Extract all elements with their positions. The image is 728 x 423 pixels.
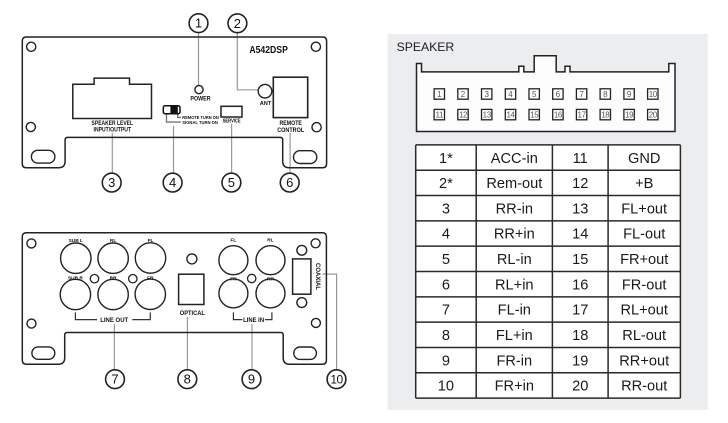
svg-text:18: 18 bbox=[601, 111, 610, 120]
svg-text:POWER: POWER bbox=[190, 96, 211, 103]
svg-text:FL-in: FL-in bbox=[498, 303, 531, 319]
connector pin 4 bbox=[505, 89, 515, 99]
svg-text:RR-in: RR-in bbox=[496, 201, 533, 217]
svg-text:9: 9 bbox=[442, 353, 450, 369]
callout 3 bbox=[102, 173, 121, 192]
optical port rectangle bbox=[179, 274, 204, 304]
callout 1 bbox=[189, 14, 208, 33]
svg-text:17: 17 bbox=[572, 303, 588, 319]
svg-text:SIGNAL TURN ON: SIGNAL TURN ON bbox=[182, 120, 218, 126]
table row pin 2* / 12 bbox=[439, 176, 653, 192]
callout 5 bbox=[222, 173, 241, 192]
svg-text:FR+out: FR+out bbox=[620, 252, 668, 268]
svg-text:3: 3 bbox=[442, 201, 450, 217]
svg-text:LINE OUT: LINE OUT bbox=[100, 317, 128, 324]
svg-text:8: 8 bbox=[442, 328, 450, 344]
svg-text:FR: FR bbox=[230, 277, 237, 283]
callout 7 bbox=[106, 370, 125, 389]
svg-text:4: 4 bbox=[442, 227, 450, 243]
svg-text:6: 6 bbox=[442, 277, 450, 293]
svg-text:2: 2 bbox=[461, 90, 466, 99]
svg-text:4: 4 bbox=[169, 175, 176, 190]
svg-text:1: 1 bbox=[437, 90, 442, 99]
svg-text:20: 20 bbox=[649, 111, 658, 120]
RCA jack RR out bbox=[98, 279, 128, 309]
svg-text:LINE IN: LINE IN bbox=[243, 317, 264, 324]
svg-text:SPEAKER: SPEAKER bbox=[397, 40, 455, 54]
svg-text:FL+in: FL+in bbox=[496, 328, 533, 344]
svg-text:FL: FL bbox=[230, 238, 236, 244]
connector pin 3 bbox=[482, 89, 492, 99]
bottom panel chassis outline bbox=[22, 233, 326, 365]
svg-text:9: 9 bbox=[248, 372, 255, 387]
leader line callout 2 bbox=[237, 33, 257, 90]
table row pin 3 / 13 bbox=[442, 201, 667, 217]
leader line callout 9 bbox=[251, 324, 253, 369]
svg-text:FR: FR bbox=[147, 276, 154, 282]
bottom panel mounting hole bottom-left bbox=[27, 319, 36, 328]
top panel chassis outline bbox=[22, 37, 326, 168]
LINE OUT bracket bbox=[75, 312, 97, 319]
connector pin 7 bbox=[576, 89, 586, 99]
connector pin 10 bbox=[648, 89, 658, 99]
svg-text:14: 14 bbox=[572, 227, 588, 243]
connector pin 5 bbox=[529, 89, 539, 99]
svg-text:RL: RL bbox=[110, 238, 116, 244]
svg-text:Rem-out: Rem-out bbox=[486, 176, 542, 192]
svg-text:COAXIAL: COAXIAL bbox=[314, 263, 320, 290]
svg-text:17: 17 bbox=[578, 111, 587, 120]
connector pin 12 bbox=[458, 109, 468, 119]
svg-text:16: 16 bbox=[554, 111, 563, 120]
svg-text:19: 19 bbox=[625, 111, 634, 120]
svg-text:1*: 1* bbox=[439, 151, 453, 167]
top panel oval slot left bbox=[31, 150, 55, 163]
connector pin 16 bbox=[553, 109, 563, 119]
RCA jack FR out bbox=[135, 279, 165, 309]
svg-text:FR-out: FR-out bbox=[622, 277, 667, 293]
connector pin 6 bbox=[553, 89, 563, 99]
bottom panel mounting hole top-right bbox=[311, 239, 320, 248]
connector pin 17 bbox=[576, 109, 586, 119]
bottom panel mounting hole top-left bbox=[27, 239, 36, 248]
svg-text:15: 15 bbox=[572, 252, 588, 268]
screw hole between line in jacks bbox=[248, 274, 256, 282]
table grid lines bbox=[416, 145, 681, 398]
svg-text:5: 5 bbox=[228, 175, 235, 190]
svg-text:2*: 2* bbox=[439, 176, 453, 192]
svg-text:RR: RR bbox=[110, 276, 117, 282]
speaker connector housing outline bbox=[417, 56, 676, 132]
RCA jack RL out bbox=[98, 243, 128, 273]
svg-text:FR+in: FR+in bbox=[495, 379, 534, 395]
svg-text:9: 9 bbox=[627, 90, 632, 99]
service port rectangle bbox=[221, 106, 242, 117]
svg-text:FR-in: FR-in bbox=[496, 353, 532, 369]
coaxial screw hole lower bbox=[297, 298, 307, 308]
svg-text:7: 7 bbox=[442, 303, 450, 319]
connector pin 20 bbox=[648, 109, 658, 119]
switch label leader SIGNAL TURN ON bbox=[167, 115, 182, 123]
speaker level connector J1 bbox=[73, 78, 152, 118]
svg-text:RR: RR bbox=[267, 277, 274, 283]
callout 6 bbox=[280, 173, 299, 192]
bottom panel oval slot left bbox=[32, 347, 55, 359]
screw hole between line out jacks 1 bbox=[90, 275, 98, 283]
top panel oval slot right bbox=[294, 151, 317, 164]
leader line callout 3 bbox=[111, 133, 113, 173]
bottom panel mounting hole bottom-right bbox=[311, 318, 320, 327]
top panel mounting hole bottom-right bbox=[312, 123, 321, 132]
svg-text:FL+out: FL+out bbox=[621, 201, 667, 217]
leader line callout 5 bbox=[231, 124, 233, 173]
svg-text:5: 5 bbox=[442, 252, 450, 268]
top panel mounting hole bottom-left bbox=[26, 122, 35, 131]
svg-text:20: 20 bbox=[572, 379, 588, 395]
connector pin 1 bbox=[434, 89, 444, 99]
connector pin 2 bbox=[458, 89, 468, 99]
LINE IN bracket bbox=[233, 312, 242, 319]
callout 8 bbox=[178, 370, 197, 389]
svg-text:INPUT/OUTPUT: INPUT/OUTPUT bbox=[94, 126, 132, 133]
svg-text:RL+out: RL+out bbox=[620, 303, 667, 319]
svg-text:10: 10 bbox=[438, 379, 454, 395]
table row pin 8 / 18 bbox=[442, 328, 666, 344]
svg-text:18: 18 bbox=[572, 328, 588, 344]
connector pin 8 bbox=[600, 89, 610, 99]
svg-text:12: 12 bbox=[459, 111, 468, 120]
svg-text:SUB R: SUB R bbox=[68, 276, 83, 282]
leader line callout 10 bbox=[323, 274, 337, 369]
optical status hole bbox=[187, 254, 197, 264]
leader line callout 1 bbox=[198, 33, 200, 85]
antenna jack ANT bbox=[258, 84, 272, 98]
svg-text:ANT: ANT bbox=[260, 101, 272, 107]
leader line callout 4 bbox=[173, 126, 175, 173]
remote control port rectangle bbox=[273, 77, 307, 117]
callout 4 bbox=[163, 173, 182, 192]
svg-text:13: 13 bbox=[572, 201, 588, 217]
connector pin 11 bbox=[434, 109, 444, 119]
connector pin 15 bbox=[529, 109, 539, 119]
leader line callout 6 bbox=[289, 133, 291, 173]
svg-text:12: 12 bbox=[572, 176, 588, 192]
svg-text:RR-out: RR-out bbox=[621, 379, 667, 395]
svg-text:RL+in: RL+in bbox=[495, 277, 534, 293]
svg-text:GND: GND bbox=[628, 151, 660, 167]
svg-text:6: 6 bbox=[556, 90, 561, 99]
svg-text:14: 14 bbox=[506, 111, 515, 120]
table row pin 7 / 17 bbox=[442, 303, 668, 319]
RCA jack FL out bbox=[135, 243, 165, 273]
bottom panel oval slot right bbox=[294, 347, 317, 359]
RCA jack line in RL bbox=[256, 246, 285, 275]
svg-text:SERVICE: SERVICE bbox=[223, 119, 242, 125]
svg-text:8: 8 bbox=[603, 90, 608, 99]
RCA jack line in RR bbox=[256, 279, 285, 308]
svg-text:3: 3 bbox=[108, 175, 115, 190]
speaker panel gray background bbox=[388, 34, 708, 410]
screw hole between line out jacks 2 bbox=[129, 275, 137, 283]
coaxial port rectangle bbox=[293, 259, 311, 294]
svg-text:10: 10 bbox=[330, 373, 343, 387]
svg-text:1: 1 bbox=[195, 16, 202, 31]
svg-text:15: 15 bbox=[530, 111, 539, 120]
svg-text:7: 7 bbox=[579, 90, 584, 99]
svg-text:ACC-in: ACC-in bbox=[491, 151, 538, 167]
svg-text:RL-out: RL-out bbox=[622, 328, 666, 344]
callout 2 bbox=[228, 14, 247, 33]
svg-text:10: 10 bbox=[649, 90, 658, 99]
top panel mounting hole top-right bbox=[311, 42, 320, 51]
RCA jack line in FL bbox=[219, 246, 248, 275]
leader line callout 7 bbox=[113, 324, 115, 369]
top panel mounting hole top-left bbox=[27, 42, 36, 51]
svg-text:16: 16 bbox=[572, 277, 588, 293]
svg-text:RR+in: RR+in bbox=[494, 227, 535, 243]
connector pin 14 bbox=[505, 109, 515, 119]
RCA jack line in FR bbox=[219, 279, 248, 308]
svg-text:+B: +B bbox=[635, 176, 653, 192]
svg-text:FL-out: FL-out bbox=[623, 227, 665, 243]
svg-text:RR+out: RR+out bbox=[619, 353, 669, 369]
svg-text:4: 4 bbox=[508, 90, 513, 99]
callout 10 bbox=[327, 370, 346, 389]
table row pin 9 / 19 bbox=[442, 353, 669, 369]
svg-text:19: 19 bbox=[572, 353, 588, 369]
switch label leader REMOTE TURN ON bbox=[178, 115, 181, 118]
svg-text:RL-in: RL-in bbox=[497, 252, 532, 268]
coaxial screw hole upper bbox=[297, 245, 307, 255]
svg-text:3: 3 bbox=[484, 90, 489, 99]
svg-text:6: 6 bbox=[286, 175, 293, 190]
connector pin 9 bbox=[624, 89, 634, 99]
slide switch SW1 bbox=[163, 106, 180, 114]
RCA jack SUB L bbox=[61, 243, 91, 273]
callout 9 bbox=[242, 370, 261, 389]
svg-text:11: 11 bbox=[436, 111, 444, 120]
svg-text:RL: RL bbox=[267, 238, 273, 244]
svg-text:11: 11 bbox=[573, 151, 588, 167]
RCA jack SUB R bbox=[60, 279, 90, 309]
svg-text:8: 8 bbox=[184, 372, 191, 387]
connector pin 19 bbox=[624, 109, 634, 119]
table row pin 5 / 15 bbox=[442, 252, 668, 268]
power LED D1 bbox=[195, 86, 203, 94]
svg-text:OPTICAL: OPTICAL bbox=[180, 310, 205, 317]
table row pin 1* / 11 bbox=[439, 151, 660, 167]
svg-text:13: 13 bbox=[483, 111, 492, 120]
pinout table bbox=[416, 145, 681, 398]
svg-text:A542DSP: A542DSP bbox=[249, 45, 288, 56]
connector pin 13 bbox=[482, 109, 492, 119]
svg-text:7: 7 bbox=[111, 372, 118, 387]
table row pin 6 / 16 bbox=[442, 277, 667, 293]
table row pin 10 / 20 bbox=[438, 379, 668, 395]
svg-text:FL: FL bbox=[148, 238, 154, 244]
table row pin 4 / 14 bbox=[442, 227, 665, 243]
svg-text:2: 2 bbox=[234, 16, 241, 31]
connector pin 18 bbox=[600, 109, 610, 119]
leader line callout 8 bbox=[186, 317, 188, 369]
svg-text:CONTROL: CONTROL bbox=[277, 127, 304, 134]
svg-text:5: 5 bbox=[532, 90, 537, 99]
svg-text:SUB L: SUB L bbox=[69, 238, 83, 244]
